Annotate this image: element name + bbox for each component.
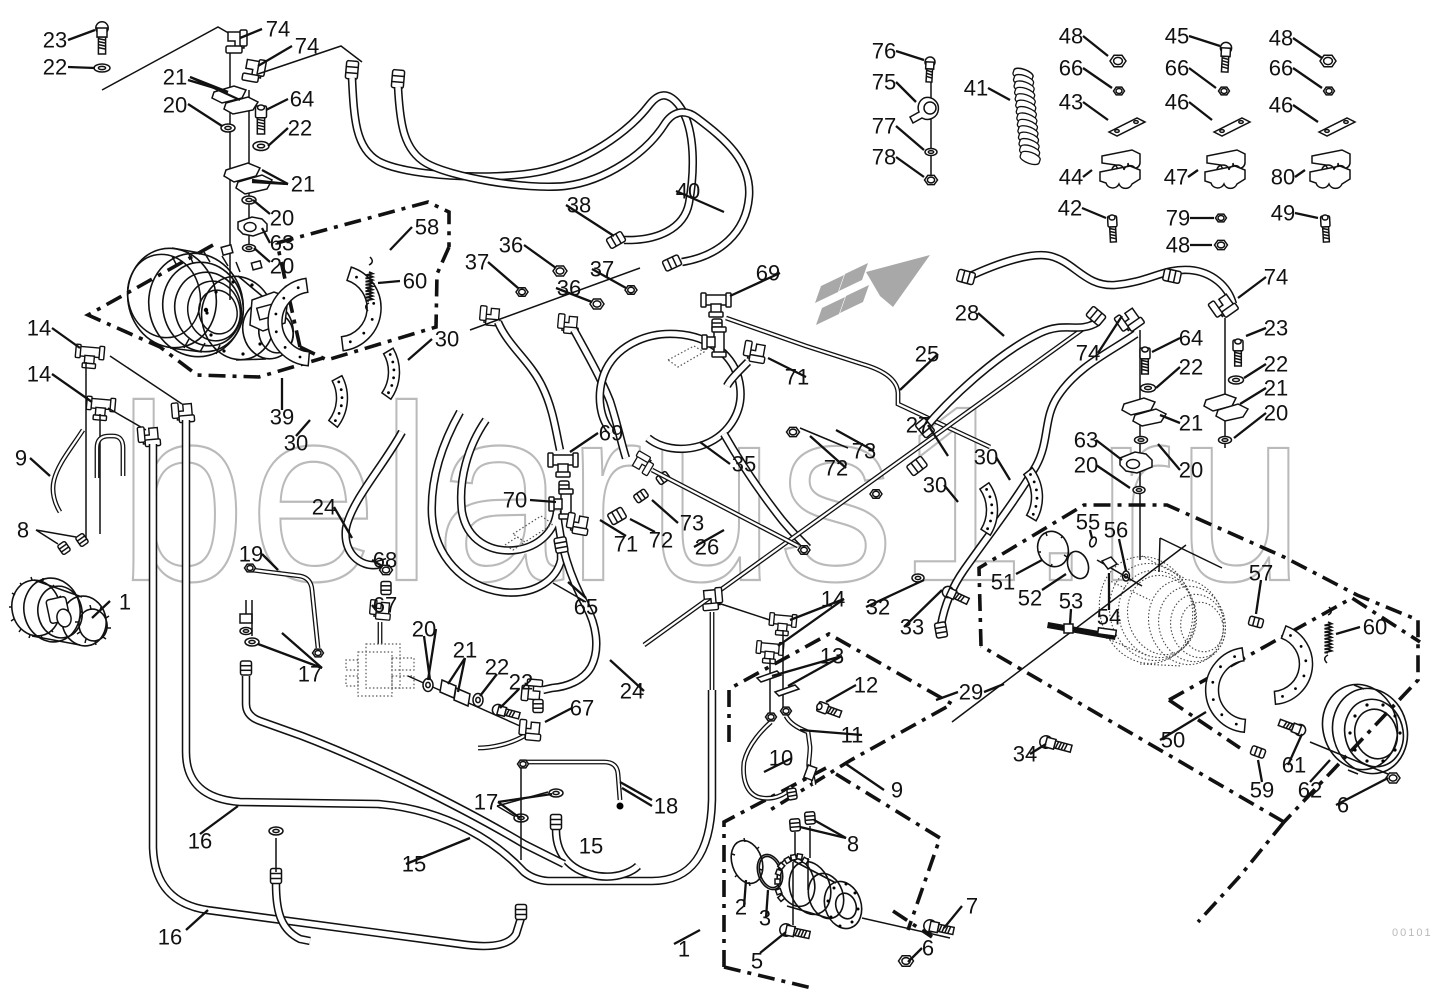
thin pipe from elbows 74 to hoses (258, 46, 362, 74)
elbow at pipe 26 top (630, 451, 656, 476)
screw 42 (1107, 215, 1117, 242)
leaders manifold (424, 636, 430, 680)
svg-text:40: 40 (676, 179, 700, 204)
svg-text:65: 65 (574, 595, 598, 620)
bolt 64 (right) (1140, 347, 1150, 374)
dash-dot box 9 (brake pipes sub-assembly) (729, 634, 952, 812)
nut 48 (col 3) (1320, 55, 1336, 66)
plate 46 (col 2) (1214, 118, 1250, 136)
o-ring 52 (1064, 548, 1092, 581)
bolt 7 (923, 919, 955, 937)
fitting column at x=1225 (1224, 318, 1226, 448)
svg-text:20: 20 (1264, 401, 1288, 426)
fitting 68 (380, 565, 393, 574)
washer 20 (242, 196, 256, 204)
svg-text:44: 44 (1059, 165, 1083, 190)
svg-text:13: 13 (820, 644, 844, 669)
svg-text:50: 50 (1161, 728, 1185, 753)
svg-text:67: 67 (570, 696, 594, 721)
svg-text:41: 41 (964, 76, 988, 101)
svg-text:52: 52 (1018, 586, 1042, 611)
breather 57 (1248, 616, 1264, 628)
washer 20 (243, 245, 256, 252)
svg-text:9: 9 (15, 446, 27, 471)
svg-text:36: 36 (557, 276, 581, 301)
washers 17 (right pair) (514, 814, 528, 822)
elbow fitting 74 (lower) (242, 57, 267, 83)
manifold small parts 20/21/22 (408, 676, 520, 726)
p-clip 75 (910, 97, 938, 123)
dash-dot enclosure 39 (front axle assy, top-left) (88, 245, 323, 377)
svg-text:30: 30 (974, 445, 998, 470)
svg-text:63: 63 (1074, 428, 1098, 453)
valve manifold (ghost) (346, 644, 414, 696)
svg-text:32: 32 (866, 595, 890, 620)
bolt 33 (941, 585, 971, 607)
fitting 14 (box 9 upper) (768, 613, 797, 637)
svg-text:15: 15 (579, 834, 603, 859)
svg-text:68: 68 (373, 548, 397, 573)
fitting 14 (upper) (74, 344, 104, 369)
brake shoe 58 (left) (268, 278, 309, 365)
washer 22 (253, 142, 269, 151)
svg-text:75: 75 (872, 70, 896, 95)
fitting column at x=1140 (1139, 330, 1141, 560)
thin panel behind drum (1159, 538, 1222, 572)
svg-text:62: 62 (1298, 778, 1322, 803)
multi leaders (190, 77, 240, 100)
svg-text:22: 22 (1179, 355, 1203, 380)
svg-text:1: 1 (678, 937, 690, 962)
svg-text:78: 78 (872, 145, 896, 170)
svg-text:22: 22 (43, 55, 67, 80)
direction arrow (hatched) (815, 255, 930, 325)
coupler at hose 28 right end (1162, 268, 1181, 283)
svg-text:71: 71 (614, 532, 638, 557)
spring 60 (366, 257, 373, 311)
dash-dot enclosure 58 (brake shoe kit box) (277, 202, 449, 360)
svg-text:39: 39 (270, 405, 294, 430)
bolt 61 (1277, 717, 1307, 737)
svg-text:22: 22 (485, 655, 509, 680)
svg-text:20: 20 (1074, 453, 1098, 478)
svg-text:59: 59 (1250, 778, 1274, 803)
svg-text:71: 71 (785, 365, 809, 390)
wheel motor hub 1 (left) (7, 573, 111, 650)
bolt 34 (1038, 734, 1072, 754)
svg-text:33: 33 (900, 615, 924, 640)
svg-text:42: 42 (1058, 196, 1082, 221)
nut 37 (right) (625, 286, 637, 295)
washer 22 (94, 64, 110, 72)
elbow 24/67 (right) (521, 678, 543, 702)
elbow 67 (left) (369, 600, 391, 621)
clamp halves 21 (mid) (224, 163, 260, 182)
coupler 72 (607, 507, 627, 525)
spring 60 (right) (1325, 607, 1332, 663)
fitting 36 (right) (590, 299, 604, 309)
svg-text:16: 16 (158, 925, 182, 950)
svg-text:66: 66 (1059, 56, 1083, 81)
elbow 67 (right) (518, 719, 542, 741)
bolt 45 (1219, 42, 1232, 72)
svg-text:72: 72 (649, 528, 673, 553)
plug 54 (1102, 557, 1117, 569)
svg-text:64: 64 (1179, 326, 1203, 351)
coupler hose 65 to elbow 71 (554, 537, 568, 554)
svg-text:57: 57 (1249, 561, 1273, 586)
fitting 14 (lower) (85, 396, 115, 421)
washer 20 (manifold) (423, 679, 433, 692)
brake shoe 30 (mid-left) (980, 483, 998, 535)
hose end 38 (345, 61, 359, 80)
clamp col 0 : 76 75 77 78 (930, 80, 932, 180)
adjuster rod 53 (1047, 622, 1116, 640)
nut 48 (col 2 low) (1215, 240, 1228, 249)
motor detail block (250, 292, 288, 331)
breather 59 (1250, 745, 1266, 758)
svg-text:73: 73 (852, 439, 876, 464)
svg-text:27: 27 (906, 413, 930, 438)
svg-text:70: 70 (503, 488, 527, 513)
svg-text:14: 14 (27, 362, 51, 387)
svg-text:21: 21 (453, 638, 477, 663)
svg-text:64: 64 (290, 87, 314, 112)
svg-text:26: 26 (695, 535, 719, 560)
svg-text:67: 67 (373, 593, 397, 618)
nut 73 (upper) (787, 427, 800, 436)
elbow at hose 15 top (701, 587, 723, 611)
svg-text:74: 74 (266, 17, 290, 42)
clamp halves 21 (upper) (212, 86, 246, 103)
svg-text:1: 1 (119, 590, 131, 615)
svg-text:28: 28 (955, 301, 979, 326)
nut 6 (right) (1386, 773, 1400, 783)
svg-text:58: 58 (415, 215, 439, 240)
dash-dot enclosure 29 (right final drive) (979, 505, 1418, 922)
svg-text:46: 46 (1165, 90, 1189, 115)
adapter under 69 (559, 481, 569, 493)
svg-text:25: 25 (915, 342, 939, 367)
coupler on hose 40 (662, 254, 682, 271)
svg-text:48: 48 (1166, 233, 1190, 258)
coupler on pipe 27 (906, 456, 928, 476)
svg-text:51: 51 (991, 570, 1015, 595)
elbow fitting 74 (upper) (226, 30, 247, 53)
brake shoe 30 (mid-right) (1024, 468, 1043, 521)
svg-text:17: 17 (298, 662, 322, 687)
tube block 63 (right) (1120, 452, 1152, 473)
fitting 14 (box 9 lower) (755, 641, 784, 665)
svg-text:79: 79 (1166, 206, 1190, 231)
svg-text:8: 8 (17, 518, 29, 543)
coupler at elbow 74 (mid) (1086, 306, 1107, 326)
svg-text:15: 15 (402, 852, 426, 877)
tube block 63 (238, 217, 267, 236)
svg-text:23: 23 (43, 28, 67, 53)
svg-text:76: 76 (872, 39, 896, 64)
ghosted fitting at 70 upper (668, 346, 704, 367)
elbow on pipe 40 (557, 314, 579, 335)
svg-text:43: 43 (1059, 90, 1083, 115)
svg-text:74: 74 (1264, 265, 1288, 290)
svg-text:38: 38 (567, 193, 591, 218)
svg-text:20: 20 (270, 206, 294, 231)
svg-text:74: 74 (1076, 341, 1100, 366)
washer 22 (right) (1141, 384, 1156, 392)
svg-text:21: 21 (1179, 411, 1203, 436)
svg-text:18: 18 (654, 794, 678, 819)
svg-text:6: 6 (1337, 793, 1349, 818)
svg-text:19: 19 (239, 542, 263, 567)
brake shoe 50 (right) (1274, 626, 1312, 704)
spiral wrap 41 (1013, 68, 1040, 164)
svg-text:12: 12 (854, 673, 878, 698)
svg-text:60: 60 (1363, 615, 1387, 640)
svg-text:7: 7 (966, 894, 978, 919)
gasket 51 (1033, 527, 1074, 571)
elbow at hose 16 outer (137, 425, 161, 447)
svg-text:73: 73 (680, 511, 704, 536)
svg-text:66: 66 (1165, 56, 1189, 81)
nut 66 (col 3) (1324, 87, 1335, 95)
svg-text:22: 22 (1264, 352, 1288, 377)
washers 17 (269, 827, 283, 835)
nut 78 (925, 175, 938, 184)
brake drum 62 (1313, 676, 1417, 782)
plate 46 (col 3) (1319, 118, 1355, 136)
fitting cluster 73 on pipe 26 (633, 489, 649, 504)
leader lines (68, 30, 95, 40)
elbow at hose 16 inner (171, 401, 195, 423)
svg-text:54: 54 (1097, 605, 1121, 630)
svg-text:21: 21 (291, 172, 315, 197)
coupler on hose 38 (606, 231, 626, 249)
svg-text:16: 16 (188, 829, 212, 854)
svg-text:8: 8 (847, 832, 859, 857)
svg-text:30: 30 (284, 431, 308, 456)
nut 66 (col 2) (1219, 87, 1230, 95)
svg-text:46: 46 (1269, 93, 1293, 118)
svg-text:3: 3 (759, 906, 771, 931)
svg-text:20: 20 (270, 254, 294, 279)
tee fitting 69 (548, 453, 578, 477)
svg-text:55: 55 (1076, 510, 1100, 535)
svg-text:24: 24 (312, 495, 336, 520)
dash-dot enclosure 50 (right brake shoes) (1169, 598, 1420, 748)
bolt 22 (491, 703, 521, 721)
svg-text:001013: 001013 (1392, 927, 1432, 939)
pin 54 shaft (1097, 560, 1142, 586)
svg-text:10: 10 (769, 746, 793, 771)
clamp 47 (1205, 150, 1245, 188)
svg-text:30: 30 (435, 327, 459, 352)
gear teeth on hub rim (778, 894, 785, 901)
clamp halves 21 (right col A) (1122, 398, 1155, 415)
bolt 5 (779, 923, 811, 941)
elbow 71 (565, 512, 590, 535)
nut 48 (col 1) (1110, 55, 1126, 66)
elbow on pipe 38 (479, 306, 501, 327)
svg-text:20: 20 (412, 617, 436, 642)
ghosted hose end at 70 (505, 516, 553, 550)
bolt 23 (right) (1233, 339, 1243, 366)
brake shoe 30 (right) (382, 348, 400, 399)
clamp halves 21 (col B) (1204, 394, 1236, 411)
svg-text:56: 56 (1104, 518, 1128, 543)
washer 20 (221, 124, 235, 132)
svg-text:69: 69 (599, 421, 623, 446)
wire leader triangle top-left (102, 27, 232, 90)
tee fitting 70 (upper) (702, 327, 726, 357)
svg-text:21: 21 (163, 65, 187, 90)
washer 20 (col A) (1135, 437, 1148, 444)
cover plate 2 (726, 836, 768, 887)
svg-text:63: 63 (270, 231, 294, 256)
svg-text:34: 34 (1013, 742, 1037, 767)
nut 79 (1216, 214, 1227, 222)
clamp 80 (1310, 150, 1350, 188)
grease fittings 8 (bottom) (789, 819, 800, 832)
brake shoe 50 (left) (1206, 648, 1246, 732)
svg-text:66: 66 (1269, 56, 1293, 81)
bolt 12 (815, 701, 842, 719)
clamp 44 (1100, 150, 1140, 188)
bolt 23 (96, 22, 108, 54)
svg-text:35: 35 (732, 452, 756, 477)
svg-text:47: 47 (1164, 165, 1188, 190)
bleeder fittings 8 (57, 541, 71, 555)
bolt 64 (256, 105, 267, 134)
svg-text:48: 48 (1269, 26, 1293, 51)
svg-text:22: 22 (288, 116, 312, 141)
svg-text:24: 24 (620, 679, 644, 704)
dash-dot box around bottom-center hub (1) (724, 768, 940, 988)
svg-text:61: 61 (1282, 753, 1306, 778)
bolt 76 (924, 57, 935, 82)
hose end 40 (391, 70, 405, 89)
svg-text:23: 23 (1264, 316, 1288, 341)
elbow 74 (mid) (1114, 305, 1145, 335)
elbow 71 (upper) (742, 340, 767, 363)
nut at pipe 26 end (798, 546, 810, 555)
svg-text:74: 74 (295, 34, 319, 59)
fitting 36 (553, 266, 567, 276)
svg-text:14: 14 (27, 316, 51, 341)
washer 20 (col B) (1219, 437, 1232, 444)
washer 22 (col B) (1229, 376, 1244, 384)
nut 6 (899, 956, 914, 967)
svg-text:21: 21 (1264, 376, 1288, 401)
svg-text:17: 17 (474, 790, 498, 815)
svg-text:37: 37 (590, 257, 614, 282)
svg-text:11: 11 (841, 723, 864, 748)
svg-text:45: 45 (1165, 24, 1189, 49)
svg-text:77: 77 (872, 114, 896, 139)
svg-text:30: 30 (923, 473, 947, 498)
tee fitting 69 (upper) (701, 293, 731, 317)
brake drum and wheel motor (inside box 39) (117, 239, 299, 368)
svg-text:14: 14 (821, 587, 845, 612)
tee fitting 70 (549, 489, 573, 519)
brake shoe 30 (left) (329, 376, 348, 428)
elbow 74 (right) (1208, 291, 1239, 321)
screw 49 (1320, 215, 1330, 242)
plate 43 (1109, 118, 1145, 136)
svg-text:37: 37 (465, 250, 489, 275)
svg-text:29: 29 (959, 680, 983, 705)
svg-text:72: 72 (824, 456, 848, 481)
brake shoe 58 (right) (342, 267, 382, 351)
pin 55 (1088, 536, 1097, 547)
nut 66 (col 1) (1114, 87, 1125, 95)
washer 22 (473, 694, 483, 707)
washer 20 (col A low) (1133, 487, 1145, 494)
washer 56 (1123, 571, 1130, 581)
svg-text:9: 9 (891, 778, 903, 803)
o-ring 3 (753, 851, 787, 893)
svg-text:20: 20 (1179, 458, 1203, 483)
leader line fittings 36/37 (470, 268, 640, 330)
clamp plates 13 (757, 671, 781, 682)
svg-text:69: 69 (756, 261, 780, 286)
svg-text:6: 6 (922, 936, 934, 961)
svg-text:5: 5 (751, 949, 763, 974)
hub body 1 (771, 853, 867, 934)
ghosted wheel motor in box 29 (1087, 545, 1234, 674)
washer 77 (925, 149, 937, 156)
svg-text:48: 48 (1059, 24, 1083, 49)
svg-text:53: 53 (1059, 589, 1083, 614)
svg-text:22: 22 (509, 670, 533, 695)
svg-text:36: 36 (499, 233, 523, 258)
svg-text:49: 49 (1271, 201, 1295, 226)
svg-text:2: 2 (735, 895, 747, 920)
svg-text:60: 60 (403, 269, 427, 294)
svg-text:20: 20 (163, 93, 187, 118)
svg-text:80: 80 (1271, 165, 1295, 190)
washer 32 (912, 574, 924, 582)
nut 37 (516, 288, 528, 297)
